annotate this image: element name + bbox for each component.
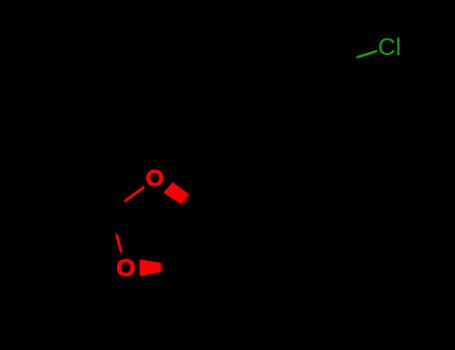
bond C5-methyl (black, invisible) — [185, 267, 196, 323]
bond O1-C2 (red half fading to black toward C2) — [106, 187, 144, 215]
bond C4-phenyl (black, invisible) — [200, 159, 267, 211]
svg-text:O: O — [116, 255, 135, 282]
wedge bond C4-O1 (solid wedge, red half near O1) — [163, 182, 191, 206]
bond C1-Cl black half (invisible) — [335, 58, 356, 65]
bond C1-Cl green half — [355, 51, 378, 58]
ring bond C4-C5 (black, invisible) — [185, 211, 200, 267]
svg-text:Cl: Cl — [378, 34, 401, 61]
wedge bond C5-O2 (solid wedge, red half near O2) — [140, 259, 185, 276]
bond C2-O2 (red half fading to black toward C2) — [111, 212, 122, 253]
svg-text:O: O — [146, 165, 164, 191]
bond C2-methyl a (black, invisible) — [53, 200, 109, 214]
benzene ring (black bonds, invisible on black) — [243, 59, 359, 165]
bond C2-methyl b (black, invisible) — [78, 214, 109, 264]
